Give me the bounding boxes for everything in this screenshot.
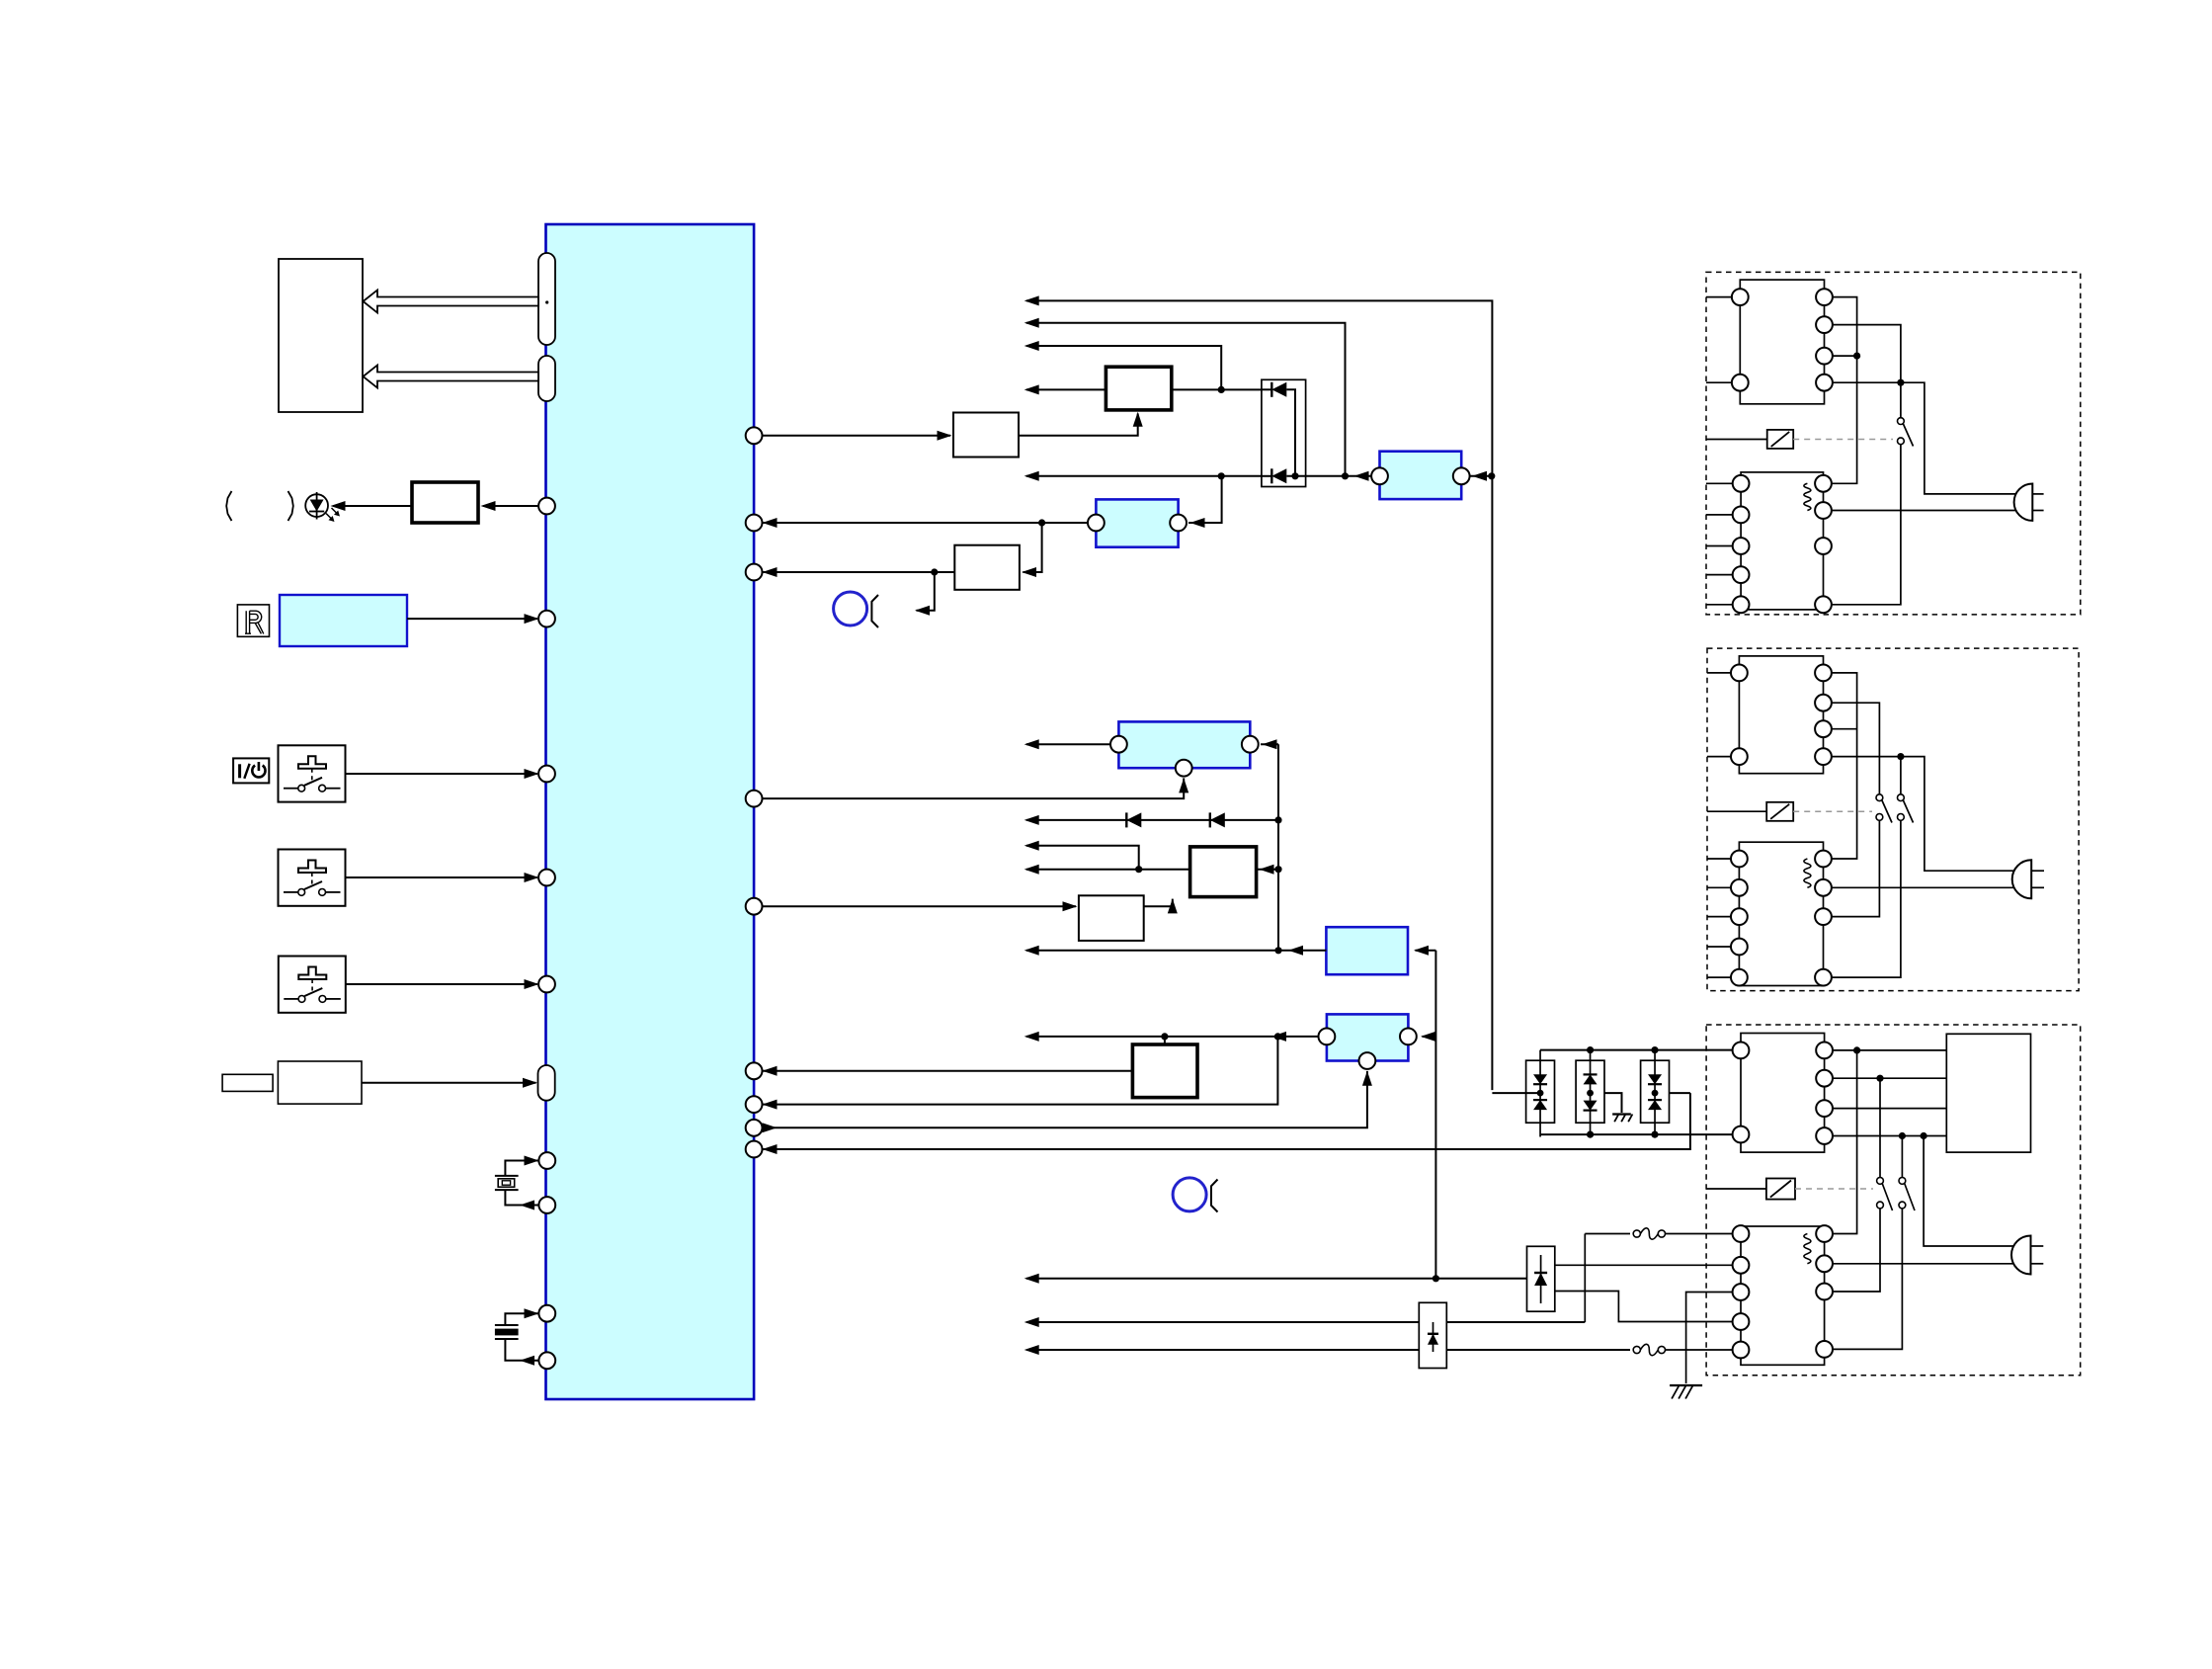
- wire AB1 right from vertical: [1261, 743, 1278, 745]
- wire VA3 mid down: [1670, 1092, 1690, 1094]
- wire fuse F2 to T5 l5: [1666, 1349, 1733, 1351]
- wire REG2 in right: [1416, 950, 1436, 952]
- fuse F1: [1633, 1230, 1640, 1237]
- block B5: [1079, 895, 1144, 941]
- pin (feedback): [746, 1096, 763, 1113]
- wire ground branch to T5 l3: [1686, 1293, 1733, 1384]
- relay RY3 dashed link: [1795, 1188, 1873, 1190]
- wire control out row: [763, 1071, 1367, 1127]
- pin (IC5 l1): [1733, 1043, 1750, 1059]
- relay RY2: [1766, 802, 1793, 821]
- pin (T5 r2): [1816, 1255, 1833, 1272]
- pin (T1 r3): [1816, 348, 1833, 365]
- pin (IC5 r1): [1816, 1043, 1833, 1059]
- diode pack D901: [1262, 379, 1306, 486]
- wire row to T5 l4 (left part): [1026, 1321, 1585, 1323]
- LED indicator D1 parentheses: [226, 491, 231, 521]
- junction: [1897, 753, 1904, 760]
- pin (T1 r2): [1816, 316, 1833, 333]
- transformer T1 primary IC: [1740, 280, 1824, 404]
- block B1: [953, 413, 1019, 458]
- pin (FL1 right): [1453, 467, 1470, 484]
- relay RY1: [1767, 430, 1794, 449]
- pin (T5 r3): [1816, 1284, 1833, 1300]
- junction: [1488, 472, 1495, 479]
- wire B6 to pin: [763, 1070, 1133, 1072]
- pin (REG3 left): [1319, 1029, 1336, 1045]
- pin (reset): [746, 564, 763, 581]
- junction: [1897, 379, 1904, 386]
- LED emission arrows: [326, 514, 333, 521]
- junction: [1135, 866, 1142, 873]
- wire REG3 left row: [1026, 1036, 1319, 1038]
- relay RY2 dashed link: [1793, 810, 1872, 812]
- wire B2 out left: [1026, 388, 1106, 390]
- pin (5V in): [746, 515, 763, 532]
- block B6 (thick): [1132, 1044, 1197, 1098]
- switch S2: [279, 850, 346, 906]
- rectifier D903: [1419, 1302, 1446, 1368]
- transformer T2 IC: [1741, 472, 1823, 610]
- pin (T2 l1): [1733, 475, 1750, 492]
- crystal X1 wiring: [505, 1161, 539, 1176]
- AC plug CN3: [2011, 1236, 2031, 1275]
- wire B4 right from B+: [1258, 869, 1278, 871]
- relay switch S901: [1898, 418, 1905, 425]
- wire REG3 right in: [1423, 1036, 1436, 1038]
- wire F1 vertical: [1584, 1234, 1586, 1323]
- relay RY3: [1766, 1179, 1795, 1200]
- pin (audio out): [746, 791, 763, 807]
- pin (REG3 right): [1400, 1029, 1417, 1045]
- relay switch S903 pole B: [1899, 1178, 1906, 1185]
- display unit block: [279, 259, 363, 412]
- pin (T3 r1): [1815, 665, 1832, 682]
- regulator REG3 (cyan): [1327, 1014, 1409, 1060]
- junction: [1433, 1275, 1439, 1282]
- wire B3 to pin: [763, 571, 954, 573]
- crystal X2 (resonator): [495, 1324, 519, 1326]
- wire fuse F1 to T5 l1: [1666, 1233, 1733, 1235]
- wire T1 r2 to relay switch: [1833, 325, 1901, 418]
- pin (T1 r4): [1816, 375, 1833, 391]
- wire IC5 r4 to PB1: [1833, 1135, 1946, 1137]
- crystal X1 (resonator): [495, 1175, 519, 1177]
- wire vertical B2-diode to REG1: [1188, 476, 1222, 523]
- wire pole2 to T4 r4: [1832, 820, 1901, 977]
- surge absorber VA1: [1526, 1060, 1555, 1123]
- wire tuner to pad: [362, 1082, 536, 1084]
- pin (switch S2): [538, 870, 555, 886]
- junction: [1161, 1033, 1168, 1040]
- pin (switch S3): [538, 976, 555, 993]
- fuse F2: [1633, 1346, 1640, 1353]
- diode D2a: [1125, 812, 1127, 827]
- junction: [1218, 386, 1225, 393]
- wire pole A to T5 r3: [1833, 1209, 1880, 1292]
- wire B+ vertical: [1277, 744, 1279, 951]
- pin (T4 l4): [1731, 939, 1748, 956]
- pin (REG3 bottom): [1359, 1052, 1376, 1069]
- pin (T3 r3): [1815, 720, 1832, 737]
- wire switch S3 to pin: [346, 983, 537, 985]
- pin (T4 r1): [1815, 851, 1832, 868]
- wire B4 left to label: [1026, 869, 1190, 871]
- relay switch S902 pole2: [1898, 794, 1905, 801]
- junction: [1218, 472, 1225, 479]
- wire pole1 to T4 r3: [1832, 820, 1880, 916]
- wire T5 r2 to plug prong: [1833, 1263, 2031, 1265]
- AC plug CN1: [2014, 484, 2033, 521]
- transformer T3 primary IC: [1739, 656, 1823, 774]
- wire junction to B3: [1024, 523, 1042, 572]
- pin (X1 b): [538, 1197, 555, 1213]
- wire sense row: [763, 1093, 1690, 1149]
- junction: [1921, 1132, 1927, 1139]
- pad P1 dot: [545, 300, 548, 303]
- pin (T2 l5): [1733, 596, 1750, 613]
- LED driver block: [412, 482, 478, 523]
- connector pad P1 (pill): [538, 253, 555, 345]
- pin (T2 r1): [1815, 475, 1832, 492]
- pin (AB1 left): [1110, 736, 1127, 753]
- block B3: [954, 545, 1020, 590]
- wire D902 top stub to T5 l2: [1555, 1264, 1733, 1266]
- pin (X2 b): [538, 1352, 555, 1369]
- wire diode pack to filter FL1: [1306, 475, 1371, 477]
- pin (T5 l4): [1733, 1313, 1750, 1330]
- wire T3 r1 down to T4: [1832, 673, 1857, 859]
- pin stub T2 l3: [1706, 545, 1733, 547]
- AC filter FL1 (cyan): [1380, 452, 1462, 499]
- switch S3: [279, 957, 346, 1013]
- speaker SP1: [834, 592, 867, 626]
- wire IC5r4 branch to pole B: [1901, 1136, 1903, 1178]
- bus arrow to display (upper): [364, 291, 539, 313]
- pin (T1 l1): [1732, 289, 1749, 305]
- wire T3 r2 to switch pole 1: [1832, 703, 1880, 793]
- pin (T5 r4): [1816, 1341, 1833, 1358]
- wire T2 r2 to plug prong: [1832, 510, 2032, 512]
- pin (X1 a): [538, 1152, 555, 1169]
- pin (T4 r3): [1815, 908, 1832, 925]
- wire D902 bottom stub to T5 l4: [1555, 1292, 1733, 1322]
- pin (T2 r2): [1815, 502, 1832, 519]
- wire diode row 2: [1026, 819, 1278, 821]
- regulator REG2 (cyan): [1326, 927, 1408, 974]
- wire varistor top bus: [1540, 1049, 1733, 1051]
- junction: [1274, 947, 1281, 954]
- wire B5 to B4: [1144, 899, 1173, 907]
- wire row A: [1026, 300, 1492, 1090]
- connector pad P3 (pill): [538, 1065, 555, 1101]
- power switch S1: [279, 745, 346, 801]
- pin (LED drive): [483, 505, 539, 507]
- pin stub T2 l4: [1706, 574, 1733, 576]
- wire T4 r2 to plug prong: [1832, 886, 2031, 888]
- junction: [1876, 1075, 1883, 1082]
- diode D901a: [1262, 388, 1271, 390]
- winding T2: [1804, 483, 1811, 510]
- pin (T3 r2): [1815, 695, 1832, 711]
- pin (T4 r4): [1815, 969, 1832, 986]
- wire switch S2 to pin: [346, 876, 538, 878]
- jack plug block: [222, 1074, 273, 1091]
- wire to speaker arrow: [917, 572, 935, 611]
- wire IC5r4 branch to plug: [1924, 1136, 2024, 1247]
- wire T3 r3 stub: [1832, 728, 1857, 730]
- surge absorber VA2: [1576, 1060, 1604, 1123]
- pin (T4 l3): [1731, 908, 1748, 925]
- wire IR to pin: [407, 618, 537, 620]
- junction: [931, 568, 938, 575]
- power block PB1: [1946, 1034, 2030, 1152]
- pin (out A): [746, 427, 763, 444]
- pin stubs T1 left: [1706, 296, 1732, 298]
- pin (T4 l2): [1731, 879, 1748, 896]
- wire IC5 r1 to PB1: [1833, 1049, 1946, 1051]
- pin (IC5 r3): [1816, 1100, 1833, 1117]
- diode D901b: [1262, 475, 1271, 477]
- wire fuse F2 row: [1026, 1349, 1630, 1351]
- pin (AB1 bottom): [1176, 760, 1192, 777]
- pin stub T4 l5: [1707, 976, 1731, 978]
- wire row B: [1026, 323, 1346, 476]
- ground: [1670, 1384, 1702, 1386]
- wire pin to B5: [763, 905, 1077, 907]
- wire B6 top feed: [1164, 1037, 1166, 1044]
- pin (T2 l4): [1733, 566, 1750, 583]
- wire pole B to T5 r4: [1833, 1209, 1902, 1350]
- system control IC U1 (main block): [546, 224, 755, 1399]
- pin stub T2 l1: [1706, 482, 1733, 484]
- wire IC5r1 branch to T5 r1: [1833, 1050, 1857, 1234]
- junction: [1853, 353, 1860, 360]
- LED D1: [305, 494, 328, 517]
- junction: [1651, 1131, 1658, 1138]
- winding T4: [1804, 859, 1811, 887]
- pin (IR input): [538, 611, 555, 627]
- power unit 1 (dashed): [1706, 272, 2081, 615]
- junction: [1853, 1046, 1860, 1053]
- junction: [1651, 1046, 1658, 1053]
- wire VA2 mid to ground: [1604, 1093, 1622, 1113]
- wire T1 r3 to vertical: [1833, 355, 1857, 357]
- power unit 2 (dashed): [1707, 648, 2079, 991]
- pin (T5 l5): [1733, 1342, 1750, 1359]
- wire T1 r1 down to T2: [1833, 297, 1857, 484]
- pin (T3 l1): [1731, 665, 1748, 682]
- wire vertical A to FL1: [1471, 475, 1492, 477]
- wire row C: [1026, 346, 1221, 389]
- IR receiver block: [280, 595, 407, 646]
- wire diode row to label: [1026, 475, 1262, 477]
- junction: [1587, 1131, 1594, 1138]
- regulator REG1 (cyan): [1096, 499, 1178, 546]
- speaker SP2: [1173, 1178, 1206, 1211]
- wire IC5 r2 to PB1: [1833, 1077, 1946, 1079]
- pin (REG1 right): [1170, 515, 1187, 532]
- junction: [1899, 1132, 1906, 1139]
- audio block AB1 (cyan): [1118, 721, 1250, 768]
- pin (IC5 r2): [1816, 1070, 1833, 1087]
- pin (T5 l1): [1733, 1225, 1750, 1242]
- bus arrow to display (lower): [364, 366, 539, 388]
- pin (T3 l2): [1731, 748, 1748, 765]
- pin (IC5 l2): [1733, 1127, 1750, 1143]
- pin (T2 r3): [1815, 538, 1832, 554]
- wire pin to block B1: [763, 435, 951, 437]
- pin (REG1 left): [1088, 515, 1105, 532]
- pin (T1 l2): [1732, 375, 1749, 391]
- junction: [1291, 472, 1298, 479]
- relay RY1 dashed link: [1793, 439, 1893, 441]
- relay switch S902 pole1: [1876, 794, 1883, 801]
- diode D2b: [1209, 812, 1211, 827]
- wire D902 top to fuse F1: [1585, 1233, 1630, 1235]
- pin (IC5 r4): [1816, 1127, 1833, 1144]
- transformer T5 IC: [1741, 1226, 1825, 1365]
- wire IC5r2 branch to pole A: [1879, 1078, 1881, 1177]
- tuner block: [278, 1061, 362, 1104]
- wire row J: [1026, 846, 1139, 870]
- pin stub T4 l1: [1707, 858, 1731, 860]
- relay switch S903 pole A: [1877, 1178, 1884, 1185]
- pin stub T2 l5: [1706, 604, 1733, 606]
- pin (T3 r4): [1815, 748, 1832, 765]
- wire REG1 to pin: [763, 522, 1088, 524]
- wire REG2 out left: [1026, 950, 1326, 952]
- pin (B5 in): [746, 898, 763, 915]
- pin (X2 a): [538, 1305, 555, 1322]
- pin (AB1 right): [1242, 736, 1259, 753]
- winding T5: [1804, 1234, 1811, 1264]
- junction: [1038, 519, 1045, 526]
- pin (T5 l2): [1733, 1257, 1750, 1274]
- rectifier D902: [1527, 1246, 1555, 1311]
- wire T3 r4 to plug: [1832, 757, 2024, 872]
- block B2 (thick): [1106, 367, 1171, 410]
- junction: [1342, 472, 1349, 479]
- pin (power switch S1): [538, 766, 555, 783]
- pin stub T4 l4: [1707, 946, 1731, 948]
- pin (B6 out): [746, 1062, 763, 1079]
- junction: [1274, 1033, 1281, 1040]
- pin stub T4 l3: [1707, 916, 1731, 918]
- wire switch to T2 r4: [1833, 445, 1901, 605]
- wire pin to AB1 bottom: [763, 778, 1185, 798]
- wire vertical to REG2/REG3: [1434, 951, 1436, 1279]
- block B4 (thick): [1190, 847, 1257, 897]
- IR remote symbol box: [237, 605, 269, 636]
- wire power switch S1 to pin: [346, 773, 538, 775]
- rectifier IC5: [1741, 1034, 1825, 1153]
- pin stub T4 l2: [1707, 886, 1731, 888]
- crystal X2 wiring: [505, 1313, 539, 1325]
- wire T1 r4 to plug: [1833, 382, 2025, 494]
- wire B1 to B2: [1019, 414, 1138, 436]
- wire varistor bottom bus: [1540, 1133, 1733, 1135]
- power label I/O box: [233, 758, 269, 783]
- wire AC feed vertical to VA1: [1492, 1092, 1540, 1094]
- wire AB1 left to label: [1026, 743, 1110, 745]
- wire B+ row to rectifier D902: [1026, 1278, 1527, 1280]
- connector pad P2 (pill): [538, 356, 555, 401]
- pin (sense in): [746, 1141, 763, 1158]
- wire driver to LED: [333, 505, 412, 507]
- pin (T5 r1): [1816, 1225, 1833, 1242]
- wire IC5 r3 to PB1: [1833, 1108, 1946, 1110]
- pin (T5 l3): [1733, 1284, 1750, 1300]
- AC plug CN2: [2012, 860, 2032, 898]
- pin (T2 l2): [1733, 507, 1750, 524]
- junction: [1587, 1046, 1594, 1053]
- pin (T1 r1): [1816, 289, 1833, 305]
- ground: [1612, 1113, 1631, 1115]
- pin (T2 l3): [1733, 538, 1750, 554]
- wire pin row to REG3 row: [763, 1037, 1278, 1105]
- pin (T4 l1): [1731, 851, 1748, 868]
- power unit 3 (dashed): [1706, 1025, 2081, 1376]
- transformer T4 IC: [1739, 842, 1823, 985]
- wire B2 out right to diode pack: [1172, 388, 1262, 390]
- pin (T4 l5): [1731, 969, 1748, 986]
- pin (control out): [746, 1120, 763, 1136]
- pin stub T2 l2: [1706, 514, 1733, 516]
- junction: [1274, 816, 1281, 823]
- junction: [1274, 866, 1281, 873]
- pin (T4 r2): [1815, 879, 1832, 896]
- pin (FL1 left): [1371, 467, 1388, 484]
- surge absorber VA3: [1641, 1060, 1670, 1123]
- pin (T2 r4): [1815, 596, 1832, 613]
- wire branch to pole 2: [1900, 757, 1902, 794]
